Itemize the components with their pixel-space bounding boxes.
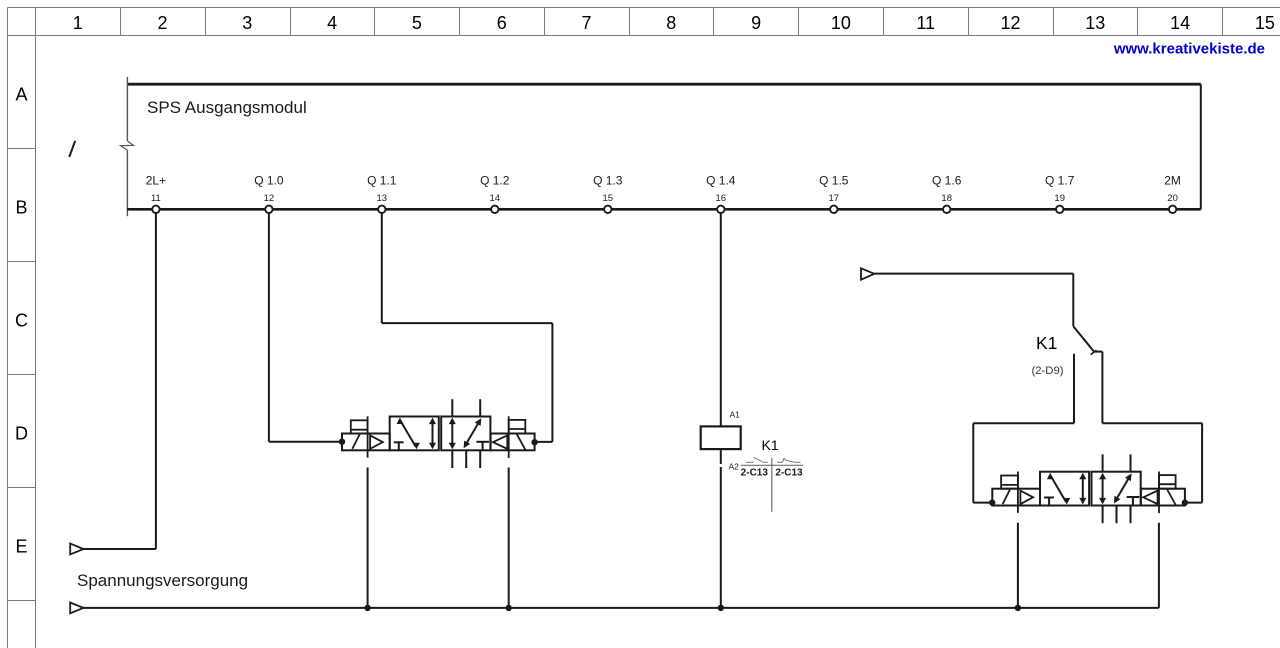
svg-text:2M: 2M (1164, 174, 1181, 188)
bus line of module (127, 208, 1201, 211)
svg-text:Q 1.3: Q 1.3 (593, 174, 623, 188)
valve V2 down wire right (1158, 523, 1160, 608)
valve V2 (5/2 double solenoid) (992, 454, 1185, 523)
valve V1 connection dot right (531, 439, 537, 445)
svg-text:13: 13 (377, 193, 388, 204)
svg-text:1: 1 (73, 13, 83, 33)
svg-text:4: 4 (327, 13, 337, 33)
right solenoid plunger line (508, 416, 510, 458)
svg-text:Q 1.7: Q 1.7 (1045, 174, 1075, 188)
right chamber blocked port (476, 442, 489, 450)
svg-text:2-C13: 2-C13 (741, 468, 769, 479)
bottom supply arrow (70, 603, 83, 614)
svg-text:14: 14 (1170, 13, 1190, 33)
svg-text:A2: A2 (729, 462, 740, 472)
svg-text:18: 18 (941, 193, 952, 204)
contact K1 wires top (874, 274, 1073, 327)
K1 cross reference contact glyph 1 (746, 457, 768, 462)
svg-text:15: 15 (1255, 13, 1275, 33)
supply arrow E row (70, 544, 83, 555)
right solenoid slash (517, 434, 526, 450)
svg-text:3: 3 (242, 13, 252, 33)
svg-text:16: 16 (716, 193, 727, 204)
valve body left chamber (390, 417, 439, 451)
svg-text:A: A (15, 85, 27, 105)
svg-text:11: 11 (916, 13, 935, 33)
svg-text:Q 1.4: Q 1.4 (706, 174, 736, 188)
port stubs bottom (452, 450, 480, 468)
valve V1 down wire right (508, 468, 510, 608)
port stubs top (452, 399, 480, 416)
svg-text:9: 9 (751, 13, 761, 33)
svg-text:19: 19 (1054, 193, 1065, 204)
left chamber flow arrow vertical (432, 421, 434, 446)
svg-text:A1: A1 (730, 410, 741, 420)
svg-text:Q 1.0: Q 1.0 (254, 174, 284, 188)
valve body right chamber (441, 417, 490, 451)
terminal circle 11 (152, 206, 159, 213)
svg-text:Q 1.1: Q 1.1 (367, 174, 397, 188)
valve V2 down wire left (1017, 523, 1019, 608)
svg-text:K1: K1 (1036, 333, 1057, 353)
K1 cross reference table (741, 458, 804, 512)
svg-text:E: E (15, 537, 27, 557)
svg-text:(2-D9): (2-D9) (1032, 365, 1064, 377)
right solenoid box (491, 434, 535, 451)
terminal circles and labels (146, 174, 1181, 188)
left chamber flow arrow diagonal (400, 421, 415, 447)
svg-text:C: C (15, 311, 28, 331)
svg-text:www.kreativekiste.de: www.kreativekiste.de (1113, 41, 1265, 58)
SPS output module box U1 (127, 77, 1200, 216)
wire from terminal 11 to supply arrow (83, 209, 156, 549)
left solenoid plunger line (367, 416, 369, 457)
wire coil K1 to bottom bus (720, 449, 722, 608)
wire terminal 12 to valve Y1 left solenoid (269, 209, 342, 441)
contact K1 blade tick (1091, 350, 1097, 354)
grid row letters (15, 85, 28, 557)
bottom supply bus (83, 607, 1159, 609)
right solenoid pilot triangle (493, 435, 507, 449)
terminal circle 12 (265, 206, 272, 213)
terminal circle 19 (1056, 206, 1063, 213)
left chamber blocked port (394, 442, 404, 450)
svg-text:2: 2 (157, 13, 167, 33)
valve V1 (5/2 double solenoid) (342, 399, 535, 468)
wire terminal 16 to relay coil K1 (720, 209, 722, 426)
left solenoid pilot triangle (370, 435, 383, 449)
svg-text:10: 10 (831, 13, 851, 33)
terminal circle 16 (717, 206, 724, 213)
svg-text:2L+: 2L+ (146, 174, 166, 188)
svg-text:2-C13: 2-C13 (775, 468, 803, 479)
junction dot bus 4 (1015, 605, 1021, 611)
left solenoid coil flag (351, 420, 368, 433)
svg-text:11: 11 (151, 193, 161, 204)
grid column numbers (73, 13, 1275, 33)
page reference slash (69, 141, 75, 157)
wire terminal 13 to valve Y1 right solenoid (382, 209, 553, 442)
relay coil K1 (701, 426, 741, 449)
svg-text:K1: K1 (762, 437, 779, 453)
contact K1 blade (1073, 326, 1094, 352)
svg-text:B: B (15, 198, 27, 218)
svg-text:8: 8 (666, 13, 676, 33)
svg-text:20: 20 (1167, 193, 1178, 204)
contact K1 output wires (973, 352, 1202, 503)
svg-text:17: 17 (829, 193, 840, 204)
svg-text:Q 1.2: Q 1.2 (480, 174, 510, 188)
terminal circle 15 (604, 206, 611, 213)
left solenoid box (342, 434, 390, 451)
terminal circle 13 (378, 206, 385, 213)
svg-text:D: D (15, 424, 28, 444)
terminal circle 20 (1169, 206, 1176, 213)
svg-text:5: 5 (412, 13, 422, 33)
valve V2 connection dot right (1182, 499, 1188, 505)
terminal circle 14 (491, 206, 498, 213)
valve V2 connection dot left (989, 499, 995, 505)
svg-text:15: 15 (603, 193, 614, 204)
svg-text:13: 13 (1085, 13, 1105, 33)
svg-text:12: 12 (264, 193, 275, 204)
right solenoid coil flag (509, 420, 526, 434)
valve V1 connection dot left (339, 439, 345, 445)
svg-text:Spannungsversorgung: Spannungsversorgung (77, 571, 248, 590)
right chamber flow arrow vertical (451, 421, 453, 446)
svg-text:Q 1.5: Q 1.5 (819, 174, 849, 188)
svg-text:SPS Ausgangsmodul: SPS Ausgangsmodul (147, 98, 307, 117)
right chamber flow arrow diagonal (467, 423, 479, 443)
left solenoid slash (352, 434, 359, 449)
junction dot bus 3 (718, 605, 724, 611)
K1 cross reference contact glyph 2 (777, 458, 800, 462)
terminal circle 18 (943, 206, 950, 213)
valve V1 down wire left (367, 468, 369, 608)
junction dot bus 1 (364, 605, 370, 611)
break squiggle on module left edge (121, 141, 134, 150)
svg-text:Q 1.6: Q 1.6 (932, 174, 962, 188)
svg-text:7: 7 (581, 13, 591, 33)
svg-text:14: 14 (490, 193, 501, 204)
svg-text:6: 6 (497, 13, 507, 33)
contact K1 arrow (861, 268, 874, 279)
terminal circle 17 (830, 206, 837, 213)
junction dot bus 2 (506, 605, 512, 611)
svg-text:12: 12 (1000, 13, 1020, 33)
